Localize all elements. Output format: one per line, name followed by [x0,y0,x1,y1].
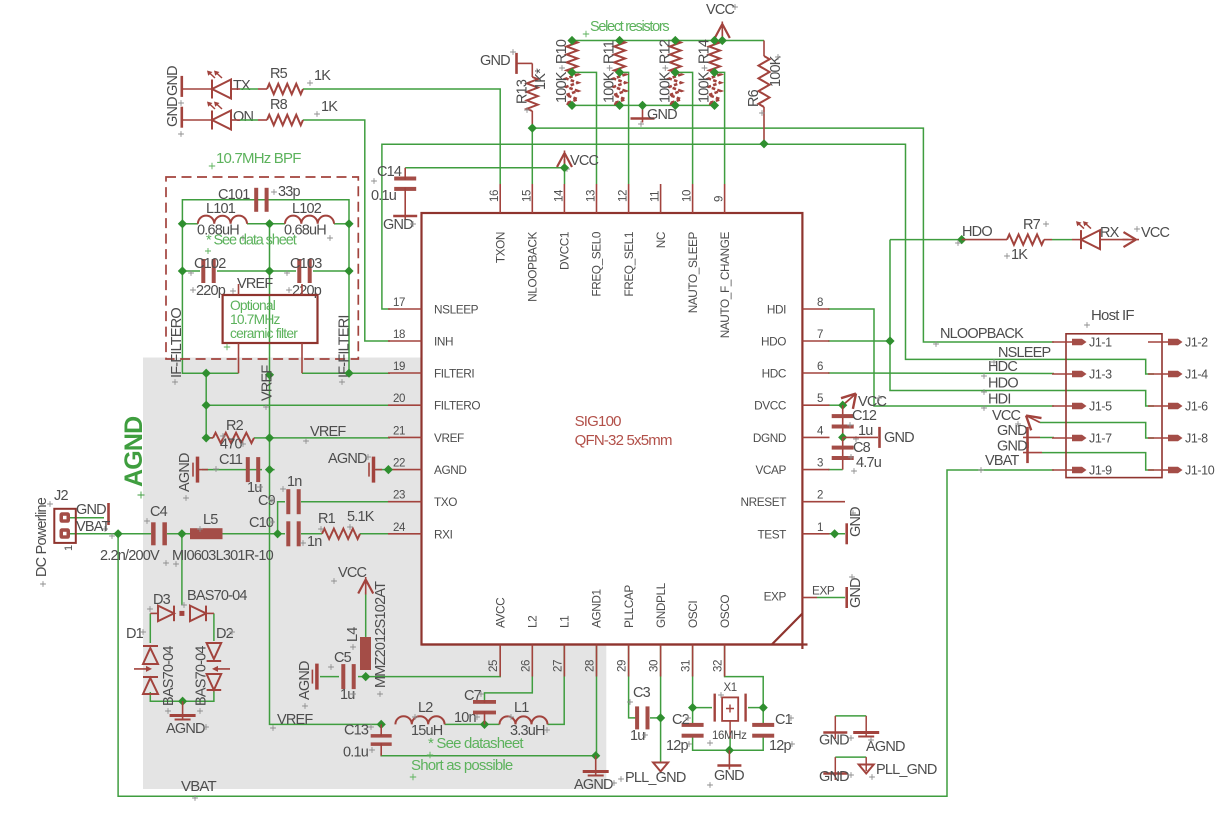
capacitor C3 1u [635,706,639,729]
svg-text:12: 12 [618,190,630,202]
svg-text:* See data sheet: * See data sheet [206,233,297,249]
value 1K for R7 [1004,253,1010,259]
svg-text:DGND: DGND [753,431,786,445]
wire HDO net pin7 to R7 and J1-6 [828,340,890,342]
svg-text:3: 3 [817,458,823,470]
resistor R1 5.1K [322,529,360,539]
junction R2 right VREF pin21 [265,433,274,442]
svg-text:L102: L102 [292,201,322,217]
svg-text:J1-7: J1-7 [1089,432,1112,446]
svg-text:1K*: 1K* [533,68,549,90]
svg-text:VREF: VREF [310,424,346,440]
svg-text:29: 29 [617,660,629,672]
svg-text:AGND: AGND [866,739,905,755]
wire C1 top stem [762,708,764,723]
svg-text:1K: 1K [1011,247,1028,263]
pin 8 HDI (right) [802,308,829,310]
supply VCC above pin14 [557,153,572,167]
pin 21 VREF (left) [388,436,422,438]
svg-text:AGND: AGND [177,453,193,492]
IC U1 SIG100 QFN-32 body [422,213,803,645]
connector pin J1-7 [1052,437,1073,439]
wire BPF top C101 row [182,200,349,224]
wire C11 between AGND and VREF [202,469,262,471]
wire GND-PLLGND tie bridge [835,756,866,758]
supply GND below C14 [393,215,417,218]
wire NSLEEP net pin17 across top to J1-4 [382,144,1154,374]
svg-text:X1: X1 [724,682,737,694]
pin 24 RXI (left) [388,533,422,535]
svg-text:100K: 100K [697,71,713,103]
resistor R7 1K [962,239,1007,241]
capacitor C4 2.2n/200V [151,522,156,545]
svg-text:1: 1 [63,545,75,551]
junction R6 bottom on NSLEEP net [759,139,768,148]
svg-text:GNDPLL: GNDPLL [654,582,668,628]
capacitor C7 10n [473,700,496,704]
svg-text:NC: NC [654,231,668,248]
svg-text:VBAT: VBAT [985,453,1020,469]
supply VCC above L4 [358,580,373,594]
junction R11 tap [615,68,624,77]
svg-text:NLOOPBACK: NLOOPBACK [940,326,1024,342]
capacitor C9 1n [286,489,290,514]
svg-text:C7: C7 [464,688,482,704]
inductor L2 15uH [395,716,444,724]
svg-text:0.1u: 0.1u [343,745,369,761]
svg-text:HDO: HDO [988,376,1018,392]
junction R10 bottom [567,101,576,110]
wire EXP net to GND [817,597,845,599]
pin 13 FREQ_SEL0 (top) [596,184,598,213]
value 33p [271,189,277,195]
wire select rail GND bottom [572,104,715,106]
svg-text:AGND1: AGND1 [590,589,604,628]
junction FILTERI row [344,369,353,378]
capacitor C10 1n [286,521,290,546]
svg-text:GND: GND [480,53,510,69]
connector pin J1-9 [1052,469,1073,471]
grey analog region [143,358,606,790]
svg-text:C11: C11 [219,452,243,468]
capacitor C101 33p [254,188,258,212]
svg-text:TX: TX [233,78,251,94]
PLL_GND of GND-PLLGND tie [859,765,874,774]
svg-text:QFN-32 5x5mm: QFN-32 5x5mm [575,432,672,449]
svg-text:D2: D2 [216,626,234,642]
svg-text:C103: C103 [290,256,322,272]
junction VCC pin14 [560,163,569,172]
svg-text:100K: 100K [554,71,570,103]
svg-text:2: 2 [817,490,823,502]
svg-text:HDI: HDI [767,303,786,317]
junction FILTERO jog [202,369,211,378]
capacitor C102 220p [201,259,205,283]
svg-text:R12: R12 [657,39,673,64]
svg-text:FREQ_SEL0: FREQ_SEL0 [590,231,604,296]
pin 23 TXO (left) [388,501,422,503]
junction diode bottoms [178,697,187,706]
wire C3 to pin30 column [650,717,661,719]
svg-text:L4: L4 [345,627,361,642]
svg-text:10.7MHz: 10.7MHz [230,312,281,327]
svg-text:GND: GND [165,97,181,127]
svg-text:12p: 12p [769,738,792,754]
svg-text:18: 18 [393,329,405,341]
svg-text:AGND: AGND [166,721,205,737]
wire crystal caps ground rail [693,737,764,750]
svg-text:VBAT: VBAT [181,778,217,795]
svg-text:19: 19 [393,361,405,373]
svg-text:C102: C102 [194,256,226,272]
inductor L102 0.68uH [285,216,334,224]
wire AGND symbol to pin22 [376,469,390,471]
svg-text:MMZ2012S102AT: MMZ2012S102AT [373,581,389,688]
supply GND of GND-PLLGND tie [823,772,847,775]
supply AGND left of C5 [315,664,319,690]
svg-text:10: 10 [682,190,694,202]
connector pin J1-8 [1148,437,1169,439]
svg-text:TXON: TXON [493,232,507,263]
pin 2 NRESET (right) [802,501,845,503]
capacitor C14 0.1u [394,177,416,181]
wire pin32 OSCO to crystal right [725,645,764,708]
svg-text:VCC: VCC [706,2,735,18]
junction R12 top [671,36,680,45]
pin 19 FILTERI (left) [388,372,422,374]
supply VCC top of select rail [715,24,730,38]
svg-text:NLOOPBACK: NLOOPBACK [526,231,540,301]
supply AGND below diodes [182,701,184,719]
value 1n for C9 [280,486,286,492]
LED RX [1080,230,1082,249]
pin 28 AGND1 (bottom) [596,645,598,677]
svg-text:AGND: AGND [434,463,466,477]
svg-text:* See datasheet: * See datasheet [428,735,524,752]
svg-text:DC Powerline: DC Powerline [34,497,50,577]
svg-text:C14: C14 [377,164,402,180]
svg-text:R13: R13 [514,79,530,104]
junction C102 row center [265,266,274,275]
junction R10 top [567,36,576,45]
svg-text:100K: 100K [657,71,673,103]
supply GND below select rail [642,105,644,122]
svg-text:ceramic filter: ceramic filter [230,326,298,341]
junction R14 bottom [710,101,719,110]
svg-text:23: 23 [393,490,405,502]
svg-text:J1-9: J1-9 [1089,464,1112,478]
svg-text:C3: C3 [633,685,651,701]
resistor R2 470 [206,437,213,439]
capacitor C12 1u [842,405,844,437]
pin 26 L2 (bottom) [531,645,533,677]
svg-text:J1-5: J1-5 [1089,400,1112,414]
connector pin J1-1 [1052,341,1073,343]
wire powerline to diode clamp D3 [181,534,183,605]
junction DGND pin4 [838,433,847,442]
junction C102 row right [344,266,353,275]
wire R10 tap to pin13 FREQ_SEL0 [572,72,597,184]
wire GND to J1-7 [1040,437,1054,439]
optional ceramic filter box [223,295,318,343]
resistor R14 100K [709,41,720,73]
svg-text:1n: 1n [287,474,302,490]
svg-text:1K: 1K [314,68,331,84]
svg-text:VCC: VCC [338,565,367,581]
svg-text:100K: 100K [602,71,618,103]
svg-text:MI0603L301R-10: MI0603L301R-10 [172,548,274,564]
label HDC [981,373,987,379]
wire GND-AGND tie bridge [835,715,866,717]
supply GND at DGND pin4 [843,436,878,438]
pin 14 DVCC1 (top) [563,184,565,213]
supply GND for LED TX [181,76,184,97]
svg-text:32: 32 [713,660,725,672]
svg-text:L2: L2 [526,616,540,628]
inductor L1 3.3uH [500,716,548,724]
wire C5 AGND lead [320,676,339,678]
svg-text:L2: L2 [418,700,433,716]
svg-text:IF-FILTERI: IF-FILTERI [337,315,353,378]
capacitor C13 0.1u [371,734,392,738]
supply AGND bottom right of grey [595,756,597,776]
wire TEST net pin1 to GND [828,533,845,535]
svg-text:FILTERO: FILTERO [434,399,480,413]
junction C4 L5 [177,529,186,538]
wire pin29 PLLCAP to C3 [629,645,636,718]
svg-text:VCC: VCC [1141,225,1170,241]
junction crystal left [688,703,697,712]
wire J2 pin2 VBAT row [69,533,151,535]
svg-text:OSCO: OSCO [718,595,732,628]
svg-text:GND: GND [848,507,864,537]
label NLOOPBACK [933,341,939,347]
svg-text:16: 16 [489,190,501,202]
wire BPF L101 L102 row [182,223,198,225]
svg-text:TEST: TEST [757,527,786,541]
supply GND for LED ON [181,107,184,128]
svg-text:R5: R5 [270,66,288,82]
svg-text:24: 24 [393,522,406,534]
supply AGND left of C11 [196,457,200,483]
wire HDI net pin8 to J1-5 [828,309,1054,406]
junction AGND1 rail [591,751,600,760]
net label VREF bottom [270,725,276,731]
pin 15 NLOOPBACK (top) [531,184,533,213]
svg-text:HDI: HDI [988,392,1011,408]
svg-text:PLL_GND: PLL_GND [876,762,937,778]
wire C4 to L5 [167,533,190,535]
svg-text:GND: GND [647,107,677,123]
svg-text:1: 1 [817,522,823,534]
junction AGND pin22 [384,465,393,474]
svg-text:HDO: HDO [761,335,786,349]
resistor R10 100K [567,41,578,73]
svg-text:2.2n/200V: 2.2n/200V [100,548,160,564]
pin 4 DGND (right) [802,436,829,438]
svg-text:VCAP: VCAP [755,463,786,477]
svg-text:C8: C8 [853,440,871,456]
pin 3 VCAP (right) [802,469,829,471]
svg-text:IF-FILTERO: IF-FILTERO [169,308,185,378]
supply GND at TEST pin1 [844,533,846,535]
wire GND to J1-10 [1042,453,1154,470]
connector pin J1-6 [1148,405,1169,407]
pin 10 NAUTO_SLEEP (top) [692,184,694,213]
svg-text:14: 14 [553,189,565,202]
diode D3 BAS70-04 [150,612,158,614]
junction crystal gnd rail [725,746,734,755]
wire pin31 OSCI to crystal [692,645,694,708]
svg-text:HDC: HDC [762,367,787,381]
svg-text:FILTERI: FILTERI [434,367,474,381]
svg-text:GND: GND [819,733,849,749]
connector pin J1-4 [1148,373,1169,375]
wire VBAT net J1-9 down and across bottom [118,470,1054,796]
pin 11 NC (top) [660,184,662,213]
supply GND bars for J1-7 J1-10 [1026,427,1029,448]
wire L5 to C10 and R1 to pin24 RXI [222,533,285,535]
svg-text:DVCC1: DVCC1 [558,232,572,270]
svg-text:13: 13 [586,190,598,202]
pin 25 AVCC (bottom) [499,645,501,677]
junction C3 right pin30 [656,713,665,722]
pin 5 DVCC (right) [802,404,829,406]
connector J1 Host IF box [1066,334,1162,478]
wire VCC to L4 [365,592,367,637]
wire TXON net from R5 to pin16 [303,89,500,184]
value 1K for R5 [307,80,313,86]
svg-text:12p: 12p [666,738,689,754]
svg-text:26: 26 [520,660,532,672]
svg-text:27: 27 [552,660,564,672]
supply GND at EXP [845,587,848,608]
svg-text:21: 21 [393,425,405,437]
junction C11 VREF [265,465,274,474]
svg-text:GND: GND [884,430,914,446]
svg-text:L5: L5 [203,512,218,528]
pin 30 GNDPLL (bottom) [660,645,662,677]
svg-text:20: 20 [393,393,405,405]
wire D1 D2 bottoms to AGND [150,690,214,701]
label 10.7MHz BPF [209,163,215,169]
pin 17 NSLEEP (left) [388,308,422,310]
svg-text:DVCC: DVCC [754,399,787,413]
junction R14 top [710,36,719,45]
connector pin J1-5 [1052,405,1073,407]
svg-text:470: 470 [220,437,243,453]
svg-text:1n: 1n [307,534,322,550]
wire R2 right to VREF and pin21 [254,437,270,439]
svg-text:1K: 1K [321,99,338,115]
svg-text:AGND: AGND [120,417,148,487]
svg-text:4: 4 [817,425,824,437]
svg-text:AVCC: AVCC [493,597,507,628]
resistor R12 100K [670,41,681,73]
svg-text:NSLEEP: NSLEEP [434,303,479,317]
svg-text:8: 8 [817,297,823,309]
pin 9 NAUTO_F_CHANGE (top) [724,184,726,213]
pin EXP (right) [802,597,817,599]
svg-text:Short as possible: Short as possible [411,757,513,774]
LED TX [211,80,213,99]
svg-text:VREF: VREF [277,712,313,728]
wire pin30 GNDPLL down to PLL_GND [660,645,662,763]
svg-text:OSCI: OSCI [686,601,700,628]
resistor R13 1K* [515,53,518,74]
pin 18 INH (left) [388,340,422,342]
svg-text:VREF: VREF [237,276,273,292]
svg-text:TXO: TXO [434,495,457,509]
label HDI [981,405,987,411]
svg-text:J2: J2 [54,488,68,504]
capacitor C8 4.7u [842,437,844,469]
supply GND of GND-AGND tie [823,731,847,734]
svg-text:J1-3: J1-3 [1089,368,1112,382]
junction R2 left [202,433,211,442]
wire VCAP net pin3 to C8 [828,469,843,471]
svg-text:VCC: VCC [570,153,599,169]
wire HDC net pin6 to J1-3 [828,372,1054,375]
pin 7 HDO (right) [802,340,829,342]
resistor R6 100K [763,41,765,57]
svg-text:GND: GND [997,423,1027,439]
svg-text:R10: R10 [554,39,570,64]
svg-text:10.7MHz BPF: 10.7MHz BPF [216,150,301,167]
junction R12 bottom [671,101,680,110]
svg-text:INH: INH [434,335,453,349]
junction L4 C5 AVCC [361,672,370,681]
svg-text:PLLCAP: PLLCAP [622,585,636,628]
inductor L101 0.68uH [198,216,247,224]
svg-text:AGND: AGND [574,777,613,793]
svg-text:J1-8: J1-8 [1185,432,1208,446]
svg-text:Optional: Optional [230,298,276,313]
junction GND stem [638,101,647,110]
junction C102 row left [178,266,187,275]
capacitor C5 1u [341,664,345,689]
svg-text:J1-4: J1-4 [1185,368,1208,382]
svg-text:C4: C4 [150,504,168,520]
svg-text:GND: GND [383,217,413,233]
svg-text:220p: 220p [196,283,226,299]
svg-text:J1-2: J1-2 [1185,336,1208,350]
junction BPF left rail [178,219,187,228]
label VREF at C102 row [230,288,236,294]
svg-text:J1-10: J1-10 [1185,464,1215,478]
svg-text:PLL_GND: PLL_GND [625,770,686,786]
svg-text:NAUTO_SLEEP: NAUTO_SLEEP [686,231,700,313]
pin 6 HDC (right) [802,372,829,374]
wire BPF C102 C103 row [181,224,183,271]
pin 1 TEST (right) [802,533,829,535]
pin 12 FREQ_SEL1 (top) [628,184,630,213]
wire DVCC net pin5 to C12 [828,404,843,406]
wire VCC net C14 to pin14 [405,168,564,184]
capacitor C103 220p [297,259,301,283]
svg-text:AGND: AGND [328,451,367,467]
svg-text:J1-1: J1-1 [1089,336,1112,350]
svg-text:11: 11 [650,191,662,202]
label VREF pin21 [303,438,309,444]
junction VREF at FILTERI row [265,370,274,379]
svg-text:C10: C10 [249,515,274,531]
junction R12 tap [671,68,680,77]
svg-text:BAS70-04: BAS70-04 [187,588,247,604]
svg-text:R14: R14 [697,39,713,64]
svg-text:EXP: EXP [812,584,835,598]
junction VCC arrow on rail [718,36,727,45]
